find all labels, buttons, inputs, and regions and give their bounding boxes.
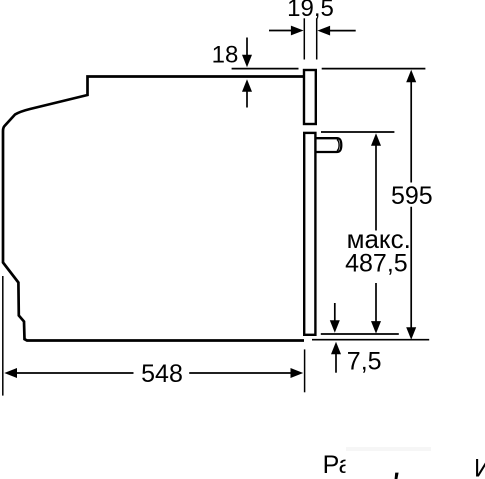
dimension 18 : down arrow xyxy=(246,38,248,57)
dimension 18 : up arrow xyxy=(246,91,248,108)
svg-text:И: И xyxy=(474,455,485,479)
oven door panel xyxy=(304,133,315,335)
dimension 487,5 : line upper part xyxy=(375,145,377,231)
dimension 487,5 : bottom arrow (points down) xyxy=(371,321,381,334)
dimension 595 : line upper part xyxy=(410,81,412,183)
extension line door-bottom level (bottom reference of 487,5 and 7,5) xyxy=(321,333,399,335)
dimension 548 : extension line left xyxy=(2,276,4,396)
dimension 19,5 : left arrow xyxy=(269,30,292,32)
dimension 548 : line right segment with right arrow xyxy=(189,372,291,374)
dimension 487,5 : top arrow (points up) xyxy=(371,133,381,146)
dimension 18 : extension line (frame top level, left of panel) xyxy=(232,68,299,70)
handle end inner arc xyxy=(337,139,339,150)
white cover clipping the caption xyxy=(346,452,360,474)
dimension 19,5 : right arrow xyxy=(330,30,356,32)
svg-text:7,5: 7,5 xyxy=(347,347,382,375)
dimension 548 : line left segment with left arrow xyxy=(16,372,134,374)
extension line door-top level (top reference of 487,5) xyxy=(321,131,394,133)
oven body outline xyxy=(3,77,304,341)
extension line body-bottom level (bottom reference of 595 and 7,5) xyxy=(312,339,429,341)
dimension 595 : bottom arrow xyxy=(406,327,416,340)
dimension 595 : top arrow xyxy=(406,70,416,83)
svg-text:19,5: 19,5 xyxy=(287,0,334,22)
dimension 19,5 : extension line left xyxy=(303,18,305,59)
dimension 595 : line lower part xyxy=(410,207,412,329)
svg-text:18: 18 xyxy=(212,42,239,69)
dimension 7,5 : up arrow below xyxy=(335,354,337,373)
front trim (upper panel piece) xyxy=(304,70,316,124)
svg-text:548: 548 xyxy=(141,360,183,388)
caption fragment descender mark xyxy=(395,473,399,479)
svg-text:595: 595 xyxy=(391,182,433,210)
dimension 548 : extension line right xyxy=(304,349,306,392)
svg-text:487,5: 487,5 xyxy=(345,250,408,278)
extension line frame-top level, right of panel (top reference of 595) xyxy=(322,68,426,70)
faint smudge of cover edge xyxy=(346,447,431,451)
dimension 487,5 : line lower part xyxy=(375,283,377,322)
dimension 19,5 : extension line right xyxy=(316,18,318,59)
handle xyxy=(316,138,341,152)
dimension 7,5 : down arrow above xyxy=(334,303,336,321)
